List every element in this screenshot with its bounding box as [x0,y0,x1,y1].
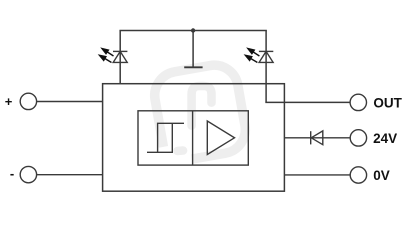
wire + input to box [37,101,103,103]
svg-text:24V: 24V [373,131,397,146]
function block divider [192,111,194,165]
svg-text:0V: 0V [373,168,390,183]
wire box to 24V diode and terminal [284,137,350,139]
wire box to 0V terminal [284,174,350,176]
wire - input to box [37,174,103,176]
terminal - [20,166,36,182]
watermark logo outline (rounded square, open at lower left) [151,61,249,163]
LED D2 light arrow 2 [245,55,257,62]
terminal 24V [350,130,366,146]
wire from junction to ground [192,31,194,67]
output amplifier triangle [207,121,234,155]
terminal + [20,93,36,109]
wire from top rail down through LED D2 to OUT line [265,31,267,103]
main device box [103,84,285,192]
watermark logo inner arch [192,86,212,126]
watermark logo pin stub [178,146,184,155]
wire from LED D1 cathode up to top rail [119,31,121,85]
inner function block [138,111,248,165]
LED D1 [113,51,127,62]
svg-text:-: - [10,166,14,181]
LED D1 light arrow 1 [102,49,114,57]
schmitt trigger hysteresis symbol [147,123,184,152]
wire top rail [119,30,266,32]
wire OUT line to terminal [265,101,350,103]
LED D2 light arrow 1 [248,49,260,57]
LED D2 [259,51,273,62]
svg-text:OUT: OUT [373,95,402,110]
terminal OUT [350,94,366,110]
svg-text:+: + [5,94,13,109]
terminal 0V [350,167,366,183]
ground [184,66,202,68]
diode D3 on 24V line [311,131,323,145]
junction on top rail [191,28,195,32]
LED D1 light arrow 2 [100,55,112,62]
